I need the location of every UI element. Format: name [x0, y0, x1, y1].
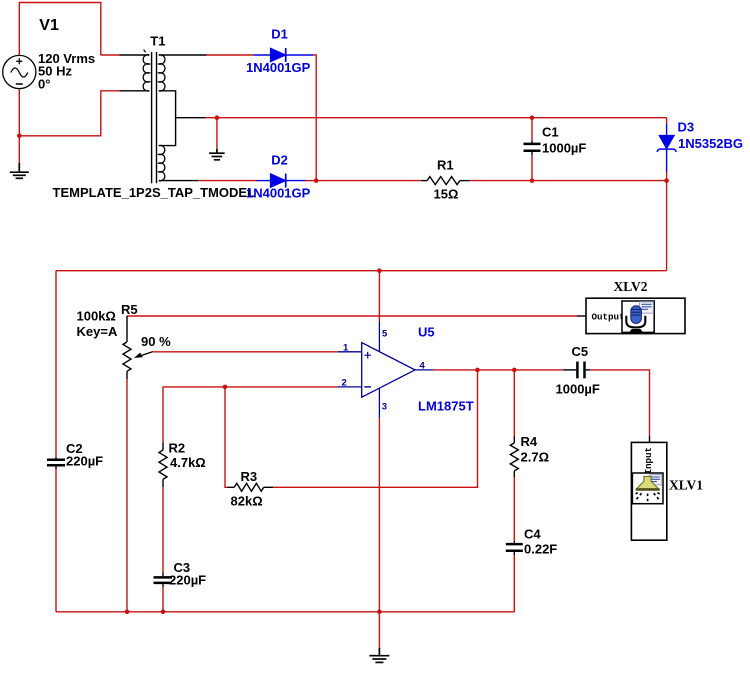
- svg-text:D3: D3: [678, 120, 695, 135]
- wire secondary inner bracket and center tap: [159, 91, 205, 146]
- svg-text:1N4001GP: 1N4001GP: [246, 186, 311, 201]
- svg-text:D1: D1: [271, 27, 288, 42]
- diode D2: [257, 174, 306, 188]
- svg-text:1N5352BG: 1N5352BG: [678, 136, 743, 151]
- svg-text:4: 4: [420, 360, 426, 371]
- wire secondary top to D1: [207, 54, 254, 56]
- svg-text:TEMPLATE_1P2S_TAP_TMODEL: TEMPLATE_1P2S_TAP_TMODEL: [53, 185, 256, 200]
- wire secondary bottom to D2: [198, 180, 256, 182]
- wire bottom horizontal to transformer: [19, 91, 119, 136]
- svg-text:4.7kΩ: 4.7kΩ: [170, 455, 206, 470]
- wire bottom rail: [56, 611, 514, 613]
- wire primary bottom lead black part: [120, 90, 150, 92]
- svg-text:Output: Output: [592, 312, 625, 323]
- svg-text:100kΩ: 100kΩ: [77, 309, 116, 324]
- wire D2 cathode to junction: [305, 180, 316, 182]
- node C1 top junction: [530, 115, 535, 120]
- svg-text:XLV2: XLV2: [614, 279, 648, 294]
- wire R4 to C4: [513, 477, 515, 541]
- XLV1 box: [631, 442, 666, 540]
- wire opamp V+ pin5 red: [378, 271, 380, 321]
- node C1 bottom junction: [530, 178, 535, 183]
- svg-text:3: 3: [382, 402, 387, 413]
- wire secondary bottom lead black: [159, 180, 199, 182]
- XLV1 speaker horn: [637, 476, 659, 488]
- wire R2 to C3: [162, 487, 164, 572]
- transformer T1 primary coil: [143, 55, 149, 91]
- wire R5 bottom to rail: [126, 379, 128, 612]
- XLV1 icon box: [632, 473, 663, 504]
- svg-text:90 %: 90 %: [141, 334, 171, 349]
- XLV1 speaker dashes: [634, 493, 662, 502]
- wire V1 top loop: [19, 3, 101, 56]
- wire left rail upper: [55, 271, 57, 457]
- XLV2 box: [586, 298, 685, 333]
- svg-text:T1: T1: [150, 34, 165, 49]
- wire pin3 ground stem: [378, 612, 380, 648]
- wire primary top lead red part: [101, 54, 120, 56]
- wire V1 bottom to junction: [18, 89, 20, 136]
- svg-text:1: 1: [343, 342, 349, 353]
- svg-text:0°: 0°: [38, 76, 50, 91]
- svg-text:1N4001GP: 1N4001GP: [246, 60, 311, 75]
- node D1 D2 junction: [314, 178, 319, 183]
- wire R5 top to XLV2: [127, 315, 577, 317]
- ground GND3: [369, 648, 389, 662]
- svg-text:C4: C4: [524, 527, 541, 542]
- svg-text:R3: R3: [241, 469, 258, 484]
- svg-text:220µF: 220µF: [169, 573, 206, 588]
- node junction V1 ground: [17, 134, 22, 139]
- XLV2 microphone body: [631, 306, 642, 324]
- XLV1 doc glyph: [650, 475, 662, 485]
- resistor R4: [510, 437, 518, 478]
- XLV2 microphone base: [629, 329, 643, 332]
- svg-text:1000µF: 1000µF: [542, 141, 586, 156]
- node R4 junction: [512, 368, 517, 373]
- SECTION2: [47, 271, 577, 663]
- wire center tap to ground: [216, 118, 218, 149]
- XLV2 microphone holder: [626, 316, 645, 328]
- wire pin2 to R2 corner: [163, 387, 338, 443]
- svg-text:XLV1: XLV1: [669, 478, 703, 493]
- wire primary top lead black part: [120, 54, 150, 56]
- wire center tap rail to D3 top: [217, 117, 667, 119]
- wire junction to ground: [18, 136, 20, 163]
- capacitor C3: [154, 573, 173, 588]
- wire right rail down: [666, 181, 668, 271]
- XLV2 doc glyph: [640, 302, 654, 313]
- resistor R2: [159, 443, 167, 487]
- capacitor C1: [524, 118, 541, 181]
- svg-text:82kΩ: 82kΩ: [231, 494, 263, 509]
- wire C4 bottom to rail corner: [513, 555, 515, 612]
- transformer T1 core: [152, 52, 157, 183]
- wire C5 to XLV1 corner: [590, 370, 650, 436]
- AC source V1: [3, 55, 36, 88]
- ground GND2 center tap: [209, 149, 224, 160]
- wire R3 left leg: [225, 387, 228, 487]
- instrument XLV1: [631, 442, 703, 540]
- svg-text:C5: C5: [572, 344, 589, 359]
- svg-text:0.22F: 0.22F: [524, 542, 557, 557]
- potentiometer R5 wiper arrow: [138, 352, 153, 357]
- wire D1 cathode corner down to D2: [313, 55, 316, 181]
- svg-text:C1: C1: [542, 125, 559, 140]
- svg-text:Input: Input: [643, 447, 654, 475]
- node center tap junction: [215, 115, 220, 120]
- svg-text:R4: R4: [521, 434, 538, 449]
- wire opamp output: [433, 369, 563, 371]
- transformer T1 secondary coil top: [159, 55, 165, 91]
- svg-text:220µF: 220µF: [66, 454, 103, 469]
- op-amp U5: [338, 321, 433, 418]
- capacitor C2: [47, 457, 65, 469]
- resistor R3: [228, 483, 274, 491]
- potentiometer R5: [123, 316, 131, 379]
- XLV2 stub: [577, 315, 586, 317]
- svg-text:Key=A: Key=A: [77, 324, 118, 339]
- wire left rail lower: [55, 469, 57, 612]
- ground GND1: [10, 163, 29, 178]
- transformer T1 secondary coil bottom: [159, 145, 165, 180]
- svg-text:R2: R2: [169, 441, 186, 456]
- wire R3 to feedback corner: [273, 370, 478, 487]
- wire XLV1 stub: [649, 436, 651, 443]
- SECTION1: [56, 27, 743, 274]
- SECTION3: [433, 279, 703, 612]
- wire center tap red: [205, 117, 217, 119]
- svg-text:R5: R5: [121, 302, 138, 317]
- capacitor C5: [563, 362, 590, 379]
- node opamp V+ junction on rail: [377, 268, 382, 273]
- wire R1 to C1 bottom to D3 bottom: [470, 180, 667, 182]
- zener diode D3: [657, 118, 676, 181]
- node feedback junction: [475, 368, 480, 373]
- node R3 tap junction: [223, 385, 228, 390]
- svg-text:V1: V1: [39, 17, 59, 34]
- svg-text:D2: D2: [271, 153, 288, 168]
- node R5 bottom on rail: [125, 610, 130, 615]
- svg-text:U5: U5: [418, 325, 435, 340]
- svg-text:R1: R1: [437, 158, 454, 173]
- svg-text:2: 2: [342, 377, 347, 388]
- instrument XLV2: [577, 279, 685, 334]
- wire junction to R1: [316, 180, 421, 182]
- svg-text:1000µF: 1000µF: [556, 382, 600, 397]
- wire wiper to opamp pin1: [153, 351, 338, 353]
- XLV2 icon box: [622, 301, 654, 332]
- node D3 bottom junction: [664, 178, 669, 183]
- wire secondary top lead black: [159, 54, 207, 56]
- wire opamp V- pin3 red to rail: [378, 418, 380, 612]
- node C3 bottom on rail: [161, 610, 166, 615]
- node ground junction on rail: [377, 610, 382, 615]
- svg-text:15Ω: 15Ω: [434, 187, 459, 202]
- svg-text:LM1875T: LM1875T: [418, 399, 474, 414]
- diode D1: [253, 48, 313, 62]
- wire top distribution rail: [56, 270, 667, 272]
- wire C3 bottom to rail: [162, 587, 164, 612]
- resistor R1: [421, 177, 470, 185]
- svg-text:5: 5: [382, 329, 388, 340]
- capacitor C4: [506, 541, 523, 555]
- transformer polarity tick: [144, 50, 146, 53]
- wire R4 top: [513, 370, 515, 437]
- svg-text:2.7Ω: 2.7Ω: [521, 450, 550, 465]
